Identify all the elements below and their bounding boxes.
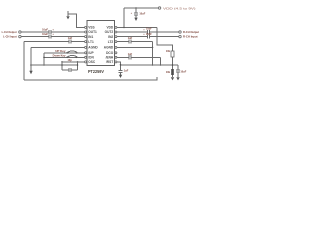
wire VSS bbox=[68, 14, 85, 27]
wire OUT2 bbox=[117, 31, 147, 33]
wire VDD branch down bbox=[157, 27, 173, 69]
resistor R2 bbox=[171, 69, 174, 75]
wire VDD bbox=[117, 26, 157, 28]
node R-CH Input terminal bbox=[179, 35, 181, 37]
svg-text:VDD (4.5 to 9V): VDD (4.5 to 9V) bbox=[163, 6, 196, 10]
wire IN1 bbox=[21, 36, 49, 38]
ground (C5) bbox=[134, 18, 137, 21]
wire AGND left bbox=[31, 46, 85, 48]
svg-text:10p: 10p bbox=[67, 59, 72, 62]
wire OSC loop bbox=[62, 62, 78, 70]
wire VDD up bbox=[123, 8, 125, 27]
switch UP Key bbox=[67, 52, 69, 54]
wire IN1 to pin bbox=[51, 36, 84, 38]
capacitor C5 10uF decoupling bbox=[135, 7, 137, 9]
svg-text:L-CH Output: L-CH Output bbox=[2, 30, 17, 34]
svg-text:10uF: 10uF bbox=[180, 70, 186, 73]
svg-text:Down Key: Down Key bbox=[53, 55, 66, 58]
svg-text:/DN: /DN bbox=[88, 56, 94, 60]
svg-text:AGND: AGND bbox=[104, 46, 114, 50]
wire VDD rail bbox=[124, 7, 158, 9]
capacitor C6 10uF bbox=[147, 30, 149, 34]
svg-text:DCO: DCO bbox=[106, 51, 114, 55]
capacitor C2 10uF bbox=[49, 35, 51, 39]
op-amp U1 PT2259V IC body bbox=[87, 21, 115, 66]
capacitor C8 1uF (LT2) bbox=[129, 40, 131, 44]
svg-text:LT1: LT1 bbox=[88, 40, 94, 44]
ground (C10) bbox=[119, 75, 122, 78]
capacitor C4 (OSC) bbox=[69, 68, 71, 72]
svg-text:10k: 10k bbox=[166, 50, 171, 53]
capacitor C11 bbox=[177, 65, 179, 70]
wire AGND right bbox=[117, 46, 153, 48]
wire LT2 down bbox=[152, 42, 154, 65]
svg-text:LT2: LT2 bbox=[108, 40, 114, 44]
node L-CH Input terminal bbox=[19, 35, 21, 37]
svg-text:L-CH Input: L-CH Input bbox=[3, 35, 17, 39]
svg-text:/RST: /RST bbox=[106, 60, 113, 64]
svg-text:R-CH Output: R-CH Output bbox=[183, 30, 199, 34]
svg-text:1uF: 1uF bbox=[128, 53, 133, 56]
node L-CH Output terminal bbox=[19, 31, 21, 33]
svg-text:1uF: 1uF bbox=[68, 37, 73, 40]
svg-text:VDD: VDD bbox=[106, 26, 113, 30]
svg-text:OUT2: OUT2 bbox=[105, 30, 114, 34]
svg-text:IN1: IN1 bbox=[88, 35, 93, 39]
capacitor C3 1uF (LT1) bbox=[69, 40, 71, 44]
capacitor C1 10uF bbox=[49, 30, 51, 34]
wire LT1 down bbox=[23, 42, 25, 80]
ground (R2) bbox=[171, 77, 174, 80]
svg-text:/ENH: /ENH bbox=[106, 56, 114, 60]
svg-text:10uF: 10uF bbox=[146, 28, 152, 31]
svg-text:OSC: OSC bbox=[88, 60, 96, 64]
svg-text:/UP: /UP bbox=[88, 51, 94, 55]
svg-text:OUT1: OUT1 bbox=[88, 30, 97, 34]
svg-text:1uF: 1uF bbox=[128, 37, 133, 40]
svg-text:10uF: 10uF bbox=[42, 28, 48, 31]
resistor R1 bbox=[171, 51, 174, 57]
capacitor C9 1uF (/ENH) bbox=[129, 55, 131, 59]
ground (VSS) bbox=[67, 11, 69, 16]
ground (C11) bbox=[176, 77, 179, 80]
wire OSC bbox=[62, 61, 85, 63]
svg-text:AGND: AGND bbox=[88, 46, 98, 50]
wire IN2 bbox=[117, 36, 147, 38]
wire LT2 bbox=[117, 41, 129, 43]
svg-text:10uF: 10uF bbox=[42, 33, 48, 36]
svg-text:R-CH Input: R-CH Input bbox=[183, 35, 198, 39]
wire bottom rail bbox=[24, 77, 157, 80]
wire /ENH bbox=[117, 56, 129, 58]
svg-text:10k: 10k bbox=[166, 71, 171, 74]
svg-text:10uF: 10uF bbox=[146, 33, 152, 36]
pin bubbles right bbox=[115, 26, 117, 63]
ground (AGND left) bbox=[29, 71, 32, 74]
svg-text:1uF: 1uF bbox=[124, 69, 129, 72]
wire /DN bbox=[44, 56, 85, 58]
wire OUT1 bbox=[21, 31, 49, 33]
svg-text:VSS: VSS bbox=[88, 26, 94, 30]
svg-text:UP Key: UP Key bbox=[55, 50, 66, 53]
svg-text:PT2259V: PT2259V bbox=[88, 69, 104, 74]
wire key common bbox=[43, 53, 45, 65]
capacitor C7 10uF bbox=[147, 35, 149, 39]
pin bubbles left bbox=[85, 26, 87, 63]
node junction bbox=[30, 64, 32, 66]
wire /ENH down bbox=[160, 57, 162, 65]
svg-text:IN2: IN2 bbox=[108, 35, 113, 39]
capacitor C10 1uF (/RST) bbox=[118, 69, 122, 71]
switch Down Key bbox=[67, 57, 69, 59]
wire LT1 bbox=[24, 41, 69, 43]
wire ground bus left bbox=[31, 64, 78, 66]
wire OUT1 to pin bbox=[51, 31, 84, 33]
wire AGND down bbox=[30, 47, 32, 70]
svg-text:10uF: 10uF bbox=[139, 13, 145, 16]
wire /UP bbox=[44, 52, 85, 54]
node R-CH Output terminal bbox=[179, 31, 181, 33]
node VDD terminal bbox=[158, 7, 160, 9]
wire ground bus right bbox=[121, 64, 179, 66]
wire /RST bbox=[117, 62, 121, 71]
